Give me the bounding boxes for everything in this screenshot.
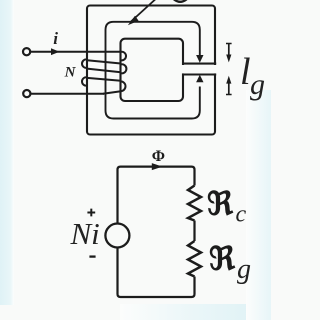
svg-text:ℜ: ℜ xyxy=(207,186,234,222)
coil turn wire 2 xyxy=(87,60,121,63)
svg-text:g: g xyxy=(250,68,265,101)
coil exit wire segment xyxy=(103,91,121,94)
plus mark xyxy=(87,209,95,217)
flux arrow into gap (down) xyxy=(196,55,203,63)
bottom lead wire xyxy=(31,93,104,95)
terminal bottom xyxy=(23,90,30,97)
svg-text:Ni: Ni xyxy=(70,216,100,251)
gap dimension arrow upper xyxy=(228,44,230,57)
coil turn wire 3 xyxy=(87,69,121,73)
equivalent circuit loop xyxy=(118,167,195,297)
coil right loop 2 xyxy=(121,64,127,73)
svg-text:Φ: Φ xyxy=(152,148,165,165)
coil turn wire 4 xyxy=(87,78,121,81)
mmf source Ni xyxy=(105,224,129,248)
flux path (mean path line, broken at air gap) xyxy=(106,22,200,119)
current arrow i xyxy=(51,48,60,55)
minus mark xyxy=(89,255,95,257)
svg-text:c: c xyxy=(236,202,247,228)
terminal top xyxy=(23,48,30,55)
coil right loop 1 xyxy=(121,52,126,61)
air gap bottom face line xyxy=(182,73,216,75)
flux direction arrow on top wire xyxy=(152,163,163,170)
top lead wire xyxy=(31,51,121,53)
coil right loop 3 xyxy=(121,81,126,91)
resistor Rg (gap reluctance) zigzag xyxy=(188,241,201,277)
coil left loop 1 xyxy=(82,59,87,67)
svg-text:i: i xyxy=(53,29,58,48)
gap dimension arrow lower xyxy=(228,82,230,95)
coil left loop 2 xyxy=(82,77,87,85)
resistor Rc (core reluctance) zigzag xyxy=(188,186,201,221)
svg-text:N: N xyxy=(64,65,77,81)
air gap top face line xyxy=(182,63,216,65)
leader arrow pointing at flux path xyxy=(131,0,157,22)
air gap white cut xyxy=(181,65,217,73)
svg-text:g: g xyxy=(237,254,251,285)
svg-text:l: l xyxy=(240,51,251,93)
flux arrow into gap (up) xyxy=(196,75,203,83)
core outer boundary xyxy=(87,6,215,135)
cropped label glyph at top xyxy=(174,0,187,2)
svg-text:ℜ: ℜ xyxy=(209,240,236,276)
core window (inner boundary) xyxy=(121,39,184,101)
